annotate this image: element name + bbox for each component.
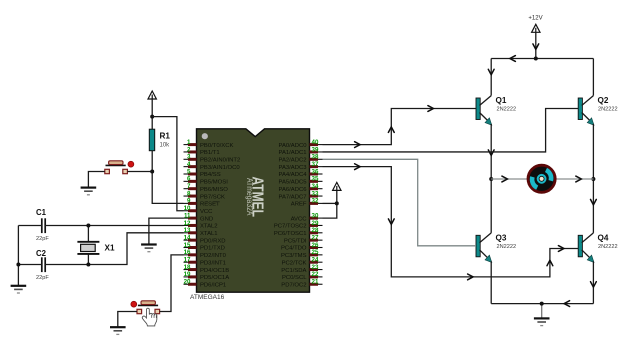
pin 4 PB3/AIN1/OC0: [184, 166, 197, 168]
svg-text:R1: R1: [160, 132, 171, 141]
svg-text:PB7/SCK: PB7/SCK: [200, 194, 225, 200]
ground stub H-bridge: [541, 304, 543, 319]
push button (reset): [106, 164, 126, 166]
svg-text:10k: 10k: [160, 143, 171, 149]
pin-1 dot: [202, 133, 208, 139]
svg-text:6: 6: [187, 176, 191, 183]
svg-text:4: 4: [187, 161, 191, 168]
pin 33 PA7/ADC7: [310, 195, 323, 197]
svg-text:PB1/T1: PB1/T1: [200, 150, 220, 156]
svg-text:27: 27: [312, 234, 319, 241]
svg-text:RESET: RESET: [200, 202, 220, 208]
svg-text:X1: X1: [105, 244, 115, 253]
pin 21 PD7/OC2: [310, 283, 323, 285]
svg-text:Q2: Q2: [598, 96, 609, 105]
MCU U1 ATMEGA16 body: [197, 129, 310, 292]
pin 28 PC6/TOSC1: [310, 232, 323, 234]
svg-text:PD5/OC1A: PD5/OC1A: [200, 275, 229, 281]
svg-text:PC4/TDO: PC4/TDO: [281, 246, 307, 252]
pin 27 PC5/TDI: [310, 239, 323, 241]
wire GND pin 11 to ground: [149, 218, 184, 244]
wire PA3 pin37 to Q4 base: [323, 167, 579, 277]
ground (input button): [110, 326, 126, 328]
wire AVCC pin30 to power: [323, 190, 337, 218]
wire Q4 emitter to bottom rail: [592, 261, 594, 303]
pin 17 PD3/INT1: [184, 261, 197, 263]
svg-text:39: 39: [312, 146, 319, 153]
svg-text:PD2/INT0: PD2/INT0: [200, 253, 227, 259]
svg-text:34: 34: [312, 183, 319, 190]
pin 24 PC2/TCK: [310, 261, 323, 263]
pin 6 PB5/MOSI: [184, 180, 197, 182]
svg-text:AREF: AREF: [291, 202, 307, 208]
ATMEL logo text: [245, 177, 266, 218]
svg-text:PC1/SDA: PC1/SDA: [281, 268, 306, 274]
svg-text:C2: C2: [36, 249, 47, 258]
svg-text:ATmega32A: ATmega32A: [245, 178, 255, 216]
svg-text:GND: GND: [200, 216, 213, 222]
ground (reset button): [81, 187, 97, 189]
pin 8 PB7/SCK: [184, 195, 197, 197]
svg-text:8: 8: [187, 190, 191, 197]
motor: [528, 165, 555, 192]
junction R1 top / VCC branch: [150, 115, 154, 119]
svg-text:PD3/INT1: PD3/INT1: [200, 260, 226, 266]
pin 30 AVCC: [310, 217, 323, 219]
pin 11 GND: [184, 217, 197, 219]
svg-text:PA0/ADC0: PA0/ADC0: [278, 143, 307, 149]
wire PA1 pin39 to Q2 base: [323, 109, 579, 152]
pin 38 PA2/ADC2: [310, 158, 323, 160]
svg-text:40: 40: [312, 139, 319, 146]
svg-text:21: 21: [312, 279, 319, 286]
wire power to R1 top: [151, 99, 153, 129]
pin 26 PC4/TDO: [310, 247, 323, 249]
pin 10 VCC: [184, 210, 197, 212]
wire XTAL2 net (C1 to pin 12): [18, 225, 41, 227]
pin 40 PA0/ADC0: [310, 144, 323, 146]
svg-text:1: 1: [187, 139, 191, 146]
svg-text:PA7/ADC7: PA7/ADC7: [278, 194, 306, 200]
svg-text:XTAL2: XTAL2: [200, 224, 218, 230]
wire +12V to top rail: [535, 32, 537, 58]
wire button right to R1 net: [127, 171, 152, 173]
pin 35 PA5/ADC5: [310, 180, 323, 182]
svg-text:VCC: VCC: [200, 209, 213, 215]
svg-text:PC5/TDI: PC5/TDI: [284, 238, 307, 244]
svg-text:22pF: 22pF: [36, 236, 49, 242]
svg-text:PA4/ADC4: PA4/ADC4: [278, 172, 307, 178]
svg-text:PA3/ADC3: PA3/ADC3: [278, 165, 307, 171]
svg-text:PC2/TCK: PC2/TCK: [282, 260, 307, 266]
bottom rail: [491, 303, 593, 305]
junction motor left: [489, 177, 493, 181]
crystal X1: [87, 226, 89, 242]
wire button right to pin 16 PD2: [160, 255, 184, 312]
svg-text:PA5/ADC5: PA5/ADC5: [278, 180, 307, 186]
svg-text:7: 7: [187, 183, 191, 190]
svg-text:PA6/ADC6: PA6/ADC6: [278, 187, 307, 193]
svg-text:PB6/MISO: PB6/MISO: [200, 187, 228, 193]
svg-text:11: 11: [184, 212, 191, 219]
wire Q2 emitter to Q4 collector (right mid vertical): [592, 124, 594, 233]
svg-text:C1: C1: [36, 208, 47, 217]
pin 15 PD1/TXD: [184, 247, 197, 249]
pin 1 PB0/T0/XCK: [184, 144, 197, 146]
svg-text:23: 23: [312, 264, 319, 271]
svg-text:22: 22: [312, 271, 319, 278]
svg-text:+12V: +12V: [528, 16, 542, 22]
pin 2 PB1/T1: [184, 151, 197, 153]
svg-text:Q3: Q3: [496, 234, 507, 243]
svg-text:PD1/TXD: PD1/TXD: [200, 246, 225, 252]
pin 18 PD4/OC1B: [184, 269, 197, 271]
junction +12V / rail: [534, 57, 538, 61]
top rail: [491, 58, 593, 60]
pin 14 PD0/RXD: [184, 239, 197, 241]
svg-text:26: 26: [312, 242, 319, 249]
mouse hand cursor: [142, 308, 157, 326]
svg-text:17: 17: [184, 257, 191, 264]
svg-text:Q1: Q1: [496, 96, 507, 105]
wire Q1 emitter to Q3 collector (left mid vertical): [490, 124, 492, 233]
pin 29 PC7/TOSC2: [310, 224, 323, 226]
pin 23 PC1/SDA: [310, 269, 323, 271]
junction AREF/AVCC: [335, 201, 339, 205]
svg-text:22pF: 22pF: [36, 275, 49, 281]
power symbol +12V: [532, 24, 540, 32]
svg-text:33: 33: [312, 190, 319, 197]
pin 3 PB2/AIN0/INT2: [184, 158, 197, 160]
svg-text:36: 36: [312, 168, 319, 175]
motor wire: [491, 178, 593, 180]
svg-text:PB2/AIN0/INT2: PB2/AIN0/INT2: [200, 158, 240, 164]
svg-text:PB0/T0/XCK: PB0/T0/XCK: [200, 143, 233, 149]
svg-text:2N2222: 2N2222: [497, 244, 517, 250]
svg-text:10: 10: [184, 205, 191, 212]
ground (crystal rail): [11, 285, 27, 287]
svg-text:15: 15: [184, 242, 191, 249]
wire PA2 pin38 to Q3 base: [323, 159, 477, 246]
svg-text:25: 25: [312, 249, 319, 256]
wire button left to ground: [88, 172, 104, 188]
svg-text:PC3/TMS: PC3/TMS: [281, 253, 307, 259]
svg-text:24: 24: [312, 257, 319, 264]
pin 36 PA4/ADC4: [310, 173, 323, 175]
pin 32 AREF: [310, 202, 323, 204]
svg-text:PB5/MOSI: PB5/MOSI: [200, 180, 228, 186]
push button (input PD2): [138, 304, 158, 306]
pin 34 PA6/ADC6: [310, 188, 323, 190]
pin 37 PA3/ADC3: [310, 166, 323, 168]
svg-text:30: 30: [312, 212, 319, 219]
svg-text:14: 14: [184, 234, 191, 241]
pin 39 PA1/ADC1: [310, 151, 323, 153]
svg-text:2N2222: 2N2222: [598, 107, 618, 113]
svg-text:PD7/OC2: PD7/OC2: [281, 282, 306, 288]
svg-text:29: 29: [312, 220, 319, 227]
svg-text:2N2222: 2N2222: [598, 244, 618, 250]
svg-text:3: 3: [187, 154, 191, 161]
ground (MCU GND pin): [141, 243, 157, 245]
svg-text:PC6/TOSC1: PC6/TOSC1: [274, 231, 307, 237]
pin 7 PB6/MISO: [184, 188, 197, 190]
svg-text:Q4: Q4: [598, 234, 609, 243]
pin 13 XTAL1: [184, 232, 197, 234]
svg-text:PD0/RXD: PD0/RXD: [200, 238, 226, 244]
svg-text:18: 18: [184, 264, 191, 271]
resistor R1: [149, 129, 154, 151]
pin 19 PD5/OC1A: [184, 276, 197, 278]
rail to Q2 collector: [592, 59, 594, 96]
svg-text:38: 38: [312, 154, 319, 161]
wire AREF pin32 to power: [323, 202, 337, 204]
power symbol (AREF/AVCC): [333, 182, 341, 190]
rail to Q1 collector: [490, 59, 492, 96]
junction motor right: [591, 177, 595, 181]
svg-text:37: 37: [312, 161, 319, 168]
pin 20 PD6/ICP1: [184, 283, 197, 285]
svg-text:PA1/ADC1: PA1/ADC1: [278, 150, 306, 156]
svg-text:13: 13: [184, 227, 191, 234]
svg-text:16: 16: [184, 249, 191, 256]
svg-text:20: 20: [184, 279, 191, 286]
wire XTAL1 net (C2 to pin 13): [18, 264, 41, 266]
svg-text:PD4/OC1B: PD4/OC1B: [200, 268, 229, 274]
svg-text:19: 19: [184, 271, 191, 278]
svg-text:PB3/AIN1/OC0: PB3/AIN1/OC0: [200, 165, 240, 171]
svg-text:ATMEGA16: ATMEGA16: [190, 294, 225, 301]
pin 9 RESET: [184, 202, 197, 204]
svg-text:9: 9: [187, 198, 191, 205]
svg-text:32: 32: [312, 198, 319, 205]
pin 12 XTAL2: [184, 224, 197, 226]
pin 5 PB4/SS: [184, 173, 197, 175]
svg-text:PA2/ADC2: PA2/ADC2: [278, 158, 306, 164]
svg-text:2N2222: 2N2222: [497, 107, 517, 113]
power symbol VCC above R1: [148, 91, 156, 99]
junction left rail / C2: [16, 263, 20, 267]
svg-text:28: 28: [312, 227, 319, 234]
pin 25 PC3/TMS: [310, 254, 323, 256]
svg-text:12: 12: [184, 220, 191, 227]
svg-text:PB4/SS: PB4/SS: [200, 172, 221, 178]
left rail to ground: [17, 226, 19, 286]
svg-text:PD6/ICP1: PD6/ICP1: [200, 282, 226, 288]
svg-text:AVCC: AVCC: [291, 216, 308, 222]
svg-text:35: 35: [312, 176, 319, 183]
svg-text:5: 5: [187, 168, 191, 175]
wire VCC branch to pin 10: [152, 117, 183, 211]
pin 16 PD2/INT0: [184, 254, 197, 256]
pin 22 PC0/SCL: [310, 276, 323, 278]
svg-text:2: 2: [187, 146, 191, 153]
wire R1 bottom to RESET pin 9: [152, 151, 183, 204]
wire PA0 pin40 to Q1 base: [323, 109, 477, 145]
wire Q3 emitter to bottom rail: [490, 261, 492, 303]
junction R1 bottom / button: [150, 170, 154, 174]
wire button left to ground: [118, 312, 137, 328]
svg-text:XTAL1: XTAL1: [200, 231, 218, 237]
ground (H-bridge): [534, 317, 550, 319]
svg-text:PC0/SCL: PC0/SCL: [282, 275, 307, 281]
svg-text:PC7/TOSC2: PC7/TOSC2: [274, 224, 307, 230]
